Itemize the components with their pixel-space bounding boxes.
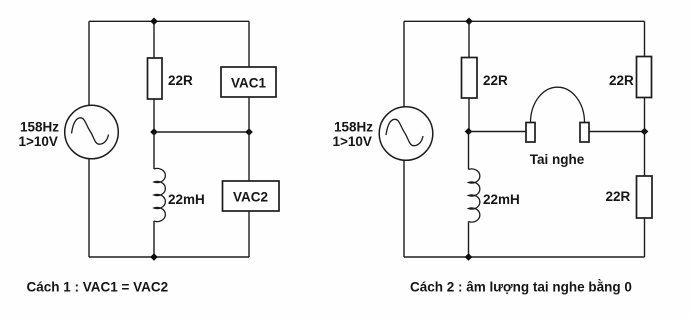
- wire R1 top lead: [153, 21, 155, 58]
- wire R2 top lead: [468, 21, 470, 57]
- resistor R4 22R: [637, 176, 653, 218]
- svg-text:1>10V: 1>10V: [333, 134, 372, 149]
- resistor R1 22R: [148, 58, 163, 99]
- node junction top (right circuit): [465, 18, 473, 26]
- headphone headband arc: [531, 87, 585, 122]
- svg-text:22R: 22R: [168, 73, 193, 88]
- wire top rail (left circuit): [89, 20, 249, 22]
- node junction mid-right (right circuit): [641, 128, 649, 136]
- svg-text:158Hz: 158Hz: [334, 119, 373, 134]
- svg-text:VAC1: VAC1: [231, 76, 267, 91]
- node junction A (left circuit mid-left): [150, 128, 158, 136]
- wire R3 top lead: [644, 21, 646, 56]
- wire top rail (right circuit): [404, 20, 645, 22]
- wire bottom rail (right circuit): [404, 256, 645, 258]
- wire VAC1 top lead: [248, 21, 250, 67]
- inductor L2 22mH: [469, 169, 480, 222]
- wire R3 bottom lead: [644, 98, 646, 132]
- wire R4 bottom lead: [644, 218, 646, 257]
- wire L1 top lead: [153, 132, 155, 169]
- node junction B (left circuit mid-right): [245, 128, 253, 136]
- wire L1 bottom lead: [153, 221, 155, 257]
- wire headphone left link: [469, 131, 527, 133]
- inductor L1 22mH: [154, 168, 165, 221]
- wire left rail / source top lead (right circuit): [403, 21, 405, 107]
- node junction bottom (right circuit): [465, 253, 473, 261]
- voltmeter VAC2: [223, 181, 280, 211]
- svg-text:22mH: 22mH: [168, 192, 205, 207]
- wire VAC2 top lead: [248, 132, 250, 181]
- AC source V1: [65, 105, 119, 159]
- wire VAC2 bottom lead: [248, 211, 250, 257]
- headphone right earpiece: [580, 123, 589, 143]
- wire R1 bottom lead: [153, 99, 155, 132]
- wire L2 top lead: [468, 132, 470, 170]
- node junction mid-left (right circuit): [465, 128, 473, 136]
- wire R2 bottom lead: [468, 98, 470, 132]
- wire left rail / source top lead (left circuit): [88, 21, 90, 105]
- svg-text:VAC2: VAC2: [233, 190, 268, 205]
- svg-text:158Hz: 158Hz: [20, 119, 59, 134]
- wire L2 bottom lead: [468, 222, 470, 258]
- svg-text:22R: 22R: [606, 189, 631, 204]
- svg-text:22R: 22R: [609, 73, 634, 88]
- resistor R3 22R: [637, 57, 652, 98]
- wire headphone right link: [589, 131, 645, 133]
- svg-text:Tai nghe: Tai nghe: [530, 152, 585, 167]
- AC source V2: [379, 107, 433, 161]
- svg-text:Cách 1 : VAC1 = VAC2: Cách 1 : VAC1 = VAC2: [27, 280, 169, 295]
- wire source bottom lead (left circuit): [88, 158, 90, 257]
- node junction top (left circuit): [150, 18, 158, 26]
- wire mid link (left circuit): [154, 131, 249, 133]
- svg-text:22R: 22R: [483, 73, 508, 88]
- resistor R2 22R: [462, 58, 478, 99]
- wire R4 top lead: [644, 132, 646, 177]
- headphone left earpiece: [526, 123, 535, 143]
- wire source bottom lead (right circuit): [403, 160, 405, 257]
- node junction bottom (left circuit): [150, 253, 158, 261]
- svg-text:1>10V: 1>10V: [19, 134, 58, 149]
- svg-text:22mH: 22mH: [483, 192, 520, 207]
- wire bottom rail (left circuit): [89, 256, 249, 258]
- svg-text:Cách 2 : âm lượng tai nghe bằn: Cách 2 : âm lượng tai nghe bằng 0: [410, 280, 632, 295]
- voltmeter VAC1: [221, 67, 276, 97]
- wire VAC1 bottom lead: [248, 97, 250, 132]
